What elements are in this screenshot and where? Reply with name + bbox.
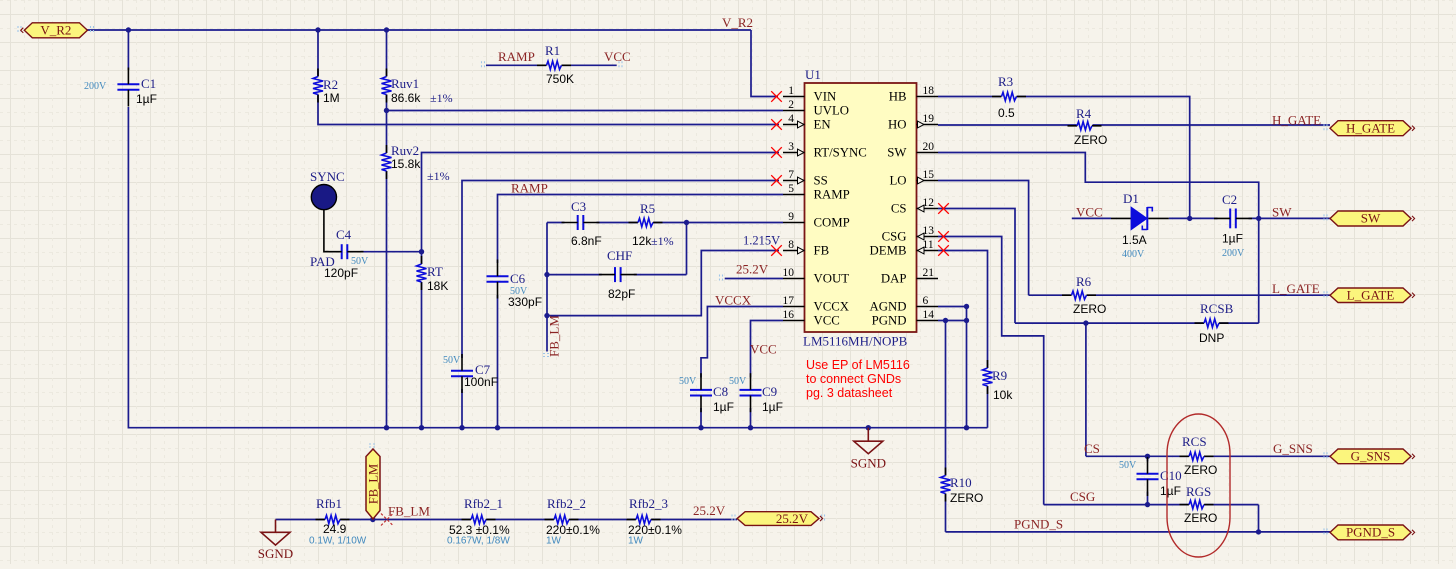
svg-text:RAMP: RAMP [814,188,850,202]
svg-text:FB_LM: FB_LM [547,315,562,357]
wire SYNC pad to C4 [324,209,329,252]
svg-text:50V: 50V [679,376,697,387]
svg-text:R10: R10 [950,475,972,490]
net label CS [1084,441,1100,456]
resistor R5 [629,201,674,248]
svg-text:CSG: CSG [1070,489,1095,504]
resistor Rfb2_3 [627,496,683,547]
svg-text:100nF: 100nF [464,375,498,389]
svg-text:FB_LM: FB_LM [366,464,380,504]
svg-text:AGND: AGND [870,300,907,314]
net label 25.2V (VOUT) [736,262,769,277]
wire net RT/SYNC to pin 3 [422,153,780,265]
svg-text:RT/SYNC: RT/SYNC [814,146,867,160]
junction dot COMP/R5 [684,220,689,225]
svg-text:G_SNS: G_SNS [1351,449,1391,464]
wire C6 bottom to bus [497,295,499,428]
junction dots top bus [126,27,390,32]
pin 9 COMP [783,211,850,230]
svg-text:0.5: 0.5 [998,106,1015,120]
ground SGND (bus) [851,428,886,471]
no-ERC marker pin 12 [938,203,949,214]
pin 5 RAMP [783,183,850,202]
pin 7 SS [783,169,828,188]
svg-text:R6: R6 [1076,274,1092,289]
svg-text:19: 19 [923,113,935,125]
svg-text:to connect GNDs: to connect GNDs [806,372,901,386]
resistor R6 [1062,274,1106,316]
net label VCC (R1) [604,49,631,64]
diode D1 [1111,191,1169,260]
wire Ruv1-Ruv2 link [386,95,388,154]
pin 2 UVLO [783,99,849,118]
wire net LO pin 15 down [938,181,1029,296]
test pad SYNC [310,169,345,210]
svg-text:25.2V: 25.2V [776,511,809,526]
net label SW [1272,205,1292,220]
svg-text:PGND_S: PGND_S [1346,525,1395,540]
wire net HB pin 18 to SW node [938,97,1190,219]
svg-text:3: 3 [788,141,794,153]
svg-text:120pF: 120pF [324,266,358,280]
capacitor C8 [679,373,734,414]
resistor Ruv1 [382,69,453,106]
wire net SW pin 20 jog [938,153,1259,219]
port H_GATE [1330,120,1415,135]
junction dot CS/RCSB [1083,320,1088,325]
svg-text:UVLO: UVLO [814,104,850,118]
svg-text:17: 17 [783,295,795,307]
svg-text:4: 4 [788,113,794,125]
svg-text:ZERO: ZERO [1184,463,1217,477]
no-ERC marker pin 1 [771,91,782,102]
junction dots SW node [1187,216,1261,221]
svg-text:25.2V: 25.2V [736,262,769,277]
svg-text:VOUT: VOUT [814,272,850,286]
resistor R2 [313,69,340,106]
wire R2 top lead [317,30,319,76]
ground SGND (divider) [258,520,293,562]
pin 16 VCC [783,309,840,328]
svg-text:15.8k: 15.8k [391,157,421,171]
net label FB_LM vertical [547,315,562,357]
resistor Rfb2_1 [447,496,510,547]
svg-text:1: 1 [788,85,794,97]
svg-text:18: 18 [923,85,935,97]
resistor Ruv2 [382,143,450,183]
wire net RAMP R1 segment [486,64,617,66]
wire net HO pin 19 through R4 to H_GATE [938,124,1330,126]
svg-text:0.1W, 1/10W: 0.1W, 1/10W [309,536,367,547]
svg-text:SW: SW [1272,205,1292,220]
svg-text:0.167W, 1/8W: 0.167W, 1/8W [447,536,510,547]
svg-text:HO: HO [888,118,906,132]
compile error cross FB_LM [381,514,393,526]
resistor RT [417,256,449,293]
svg-text:1µF: 1µF [762,400,783,414]
wire ground bus SGND [128,107,987,428]
capacitor C9 [729,373,783,414]
no-ERC marker pin 13 [938,231,949,242]
wire C1 top lead [127,30,129,70]
wire net CSG pin 13 down [938,237,1044,505]
wire CHF branch right vertical [686,223,688,275]
svg-text:6.8nF: 6.8nF [571,234,602,248]
resistor RCS [1180,434,1218,477]
svg-text:750K: 750K [546,72,574,86]
svg-text:V_R2: V_R2 [40,23,71,38]
port V_R2 [21,23,88,38]
svg-text:9: 9 [788,211,794,223]
svg-text:SS: SS [814,174,828,188]
svg-text:VCCX: VCCX [814,300,850,314]
svg-text:C8: C8 [713,384,728,399]
svg-text:H_GATE: H_GATE [1272,113,1321,128]
pin 12 CS [891,197,938,216]
svg-text:COMP: COMP [814,216,850,230]
svg-text:U1: U1 [805,67,821,82]
svg-text:DNP: DNP [1199,331,1224,345]
net label 1.215V [743,234,780,248]
junction dot FB_LM divider [370,517,375,522]
svg-text:pg. 3 datasheet: pg. 3 datasheet [806,386,893,400]
no-ERC marker pin 11 [938,245,949,256]
op-amp U1 body LM5116MH/NOPB [803,67,917,349]
wire RCSB to SW node vertical [1258,218,1260,323]
pin 14 PGND [872,309,938,328]
svg-text:H_GATE: H_GATE [1346,120,1395,135]
svg-text:10: 10 [783,267,795,279]
svg-text:HB: HB [889,90,907,104]
capacitor C3 [562,199,602,248]
wire net SS pin 7 to C7 [462,181,779,359]
junction dots C10 [1145,454,1150,508]
no-ERC marker pin 3 [771,147,782,158]
pin 8 FB [783,239,829,258]
svg-text:6: 6 [923,295,929,307]
svg-text:1W: 1W [628,536,644,547]
no-ERC marker pin 7 [771,175,782,186]
svg-text:1.215V: 1.215V [743,234,780,248]
net label L_GATE [1272,281,1320,296]
pin 21 DAP [881,267,938,286]
net label VCC (C9) [750,342,777,357]
wire net FB_LM vertical stub [546,223,548,352]
resistor Rfb2_2 [545,496,601,547]
svg-text:EN: EN [814,118,831,132]
svg-text:1µF: 1µF [713,400,734,414]
highlight ellipse RCS/RGS [1167,414,1230,557]
svg-text:C2: C2 [1222,192,1237,207]
resistor Rfb1 [309,496,367,547]
svg-text:5: 5 [788,183,794,195]
svg-text:VCC: VCC [604,49,631,64]
pin 10 VOUT [783,267,850,286]
capacitor C2 [1214,192,1252,259]
wire Ruv1 top lead [386,30,388,76]
svg-text:R1: R1 [545,43,560,58]
svg-text:86.6k: 86.6k [391,91,421,105]
svg-text:Ruv1: Ruv1 [391,76,419,91]
net label FB_LM (divider) [388,504,430,519]
junction dot RT/C4 [419,249,424,254]
wire net FB to pin 8 [547,251,779,316]
svg-text:400V: 400V [1122,249,1145,260]
svg-text:10k: 10k [993,388,1013,402]
junction dot PGND_S/RGS [1256,529,1261,534]
port L_GATE [1330,287,1415,302]
wire net FB_LM bottom divider row [276,519,738,521]
svg-text:C10: C10 [1160,468,1182,483]
port G_SNS [1330,449,1415,464]
svg-text:330pF: 330pF [508,295,542,309]
wire net EN from R2 to pin 4 [318,95,779,125]
svg-text:RT: RT [427,264,443,279]
net label 25.2V (port) [693,503,726,518]
wire net L_GATE row through R6 [1029,294,1330,296]
svg-text:CHF: CHF [607,248,632,263]
net label V_R2 top [722,15,753,30]
svg-text:DAP: DAP [881,272,907,286]
wire C9 bottom to bus [750,408,752,428]
svg-text:ZERO: ZERO [1073,302,1106,316]
svg-text:25.2V: 25.2V [693,503,726,518]
svg-text:11: 11 [923,239,934,251]
net label VCCX [715,293,752,308]
svg-text:±1%: ±1% [430,91,453,105]
svg-text:RAMP: RAMP [498,49,535,64]
wire net V_R2 top bus [87,30,778,97]
wire R10 bottom [945,494,947,532]
resistor R4 [1068,106,1108,147]
resistor R3 [992,74,1026,120]
capacitor C6 [487,260,543,310]
svg-text:1.5A: 1.5A [1122,233,1147,247]
resistor R10 [941,468,984,506]
resistor RGS [1180,484,1218,525]
wire C8 bottom to bus [700,408,702,428]
wire net CS down to sense row [1085,323,1087,456]
wire C4 right lead to RT node [361,251,422,253]
wire net PGND_S R10 vertical [945,321,947,476]
svg-text:16: 16 [783,309,795,321]
capacitor C7 [443,354,498,393]
svg-text:C1: C1 [141,76,156,91]
capacitor C1 [84,68,157,107]
svg-text:2: 2 [788,99,794,111]
wire net PGND pin 14 [938,320,967,322]
wire net PGND_S row to port [946,531,1331,533]
wire Ruv2 to ground bus [386,171,388,428]
svg-text:VCC: VCC [750,342,777,357]
svg-text:ZERO: ZERO [1184,511,1217,525]
svg-text:R3: R3 [998,74,1013,89]
junction dots AGND/PGND [943,304,969,323]
svg-text:CS: CS [891,202,907,216]
wire C7 bottom to bus [461,389,463,428]
svg-text:FB: FB [814,244,830,258]
svg-text:200V: 200V [1222,248,1245,259]
svg-text:Rfb2_3: Rfb2_3 [629,496,668,511]
svg-text:±1%: ±1% [651,234,674,248]
port SW [1330,211,1415,226]
svg-text:50V: 50V [1119,460,1137,471]
pin 6 AGND [870,295,938,314]
svg-text:50V: 50V [729,376,747,387]
svg-text:R2: R2 [323,77,338,92]
wire net DEMB pin 11 to R9 [938,251,988,369]
wire net VCCX pin 17 to C8 [701,307,783,378]
no-ERC marker pin 4 [771,119,782,130]
svg-text:50V: 50V [443,355,461,366]
svg-text:Use EP of LM5116: Use EP of LM5116 [806,358,910,372]
svg-text:VCC: VCC [814,314,840,328]
svg-text:RGS: RGS [1186,484,1211,499]
svg-text:8: 8 [788,239,794,251]
svg-text:SGND: SGND [851,456,886,471]
svg-text:RCS: RCS [1182,434,1207,449]
junction dots ground bus [384,425,969,430]
svg-text:1µF: 1µF [136,92,157,106]
svg-text:SW: SW [1361,211,1381,226]
svg-text:14: 14 [923,309,935,321]
svg-text:RAMP: RAMP [511,181,548,196]
svg-text:D1: D1 [1123,191,1139,206]
svg-text:1W: 1W [546,536,562,547]
svg-text:VIN: VIN [814,90,837,104]
net label G_SNS [1273,441,1313,456]
wire net CS pin 12 down [938,209,1015,324]
svg-text:CSG: CSG [882,230,907,244]
svg-text:Rfb1: Rfb1 [316,496,342,511]
wire net CS RCSB row [1015,322,1259,324]
svg-text:VCCX: VCCX [715,293,752,308]
pin 18 HB [889,85,938,104]
wire net VCC pin 16 to C9 [751,321,784,378]
svg-text:Ruv2: Ruv2 [391,143,419,158]
wire net CSG row through RGS [1044,504,1259,506]
svg-text:VCC: VCC [1076,205,1103,220]
svg-text:RCSB: RCSB [1200,301,1234,316]
pin 19 HO [888,113,938,132]
svg-text:18K: 18K [427,279,448,293]
svg-text:21: 21 [923,267,935,279]
capacitor C4 [310,227,369,280]
wire net COMP pin 9 [687,222,784,224]
net label PGND_S [1014,517,1063,532]
net label VCC (D1) [1076,205,1103,220]
wire net UVLO to pin 2 [387,110,784,112]
svg-text:R4: R4 [1076,106,1092,121]
svg-text:LO: LO [889,174,906,188]
wire RGS right to PGND_S row [1258,505,1260,532]
svg-text:Rfb2_1: Rfb2_1 [464,496,503,511]
pin 20 SW [887,141,938,160]
svg-text:1µF: 1µF [1160,484,1181,498]
junction dot Ruv1/UVLO [384,108,389,113]
capacitor CHF [599,248,637,301]
svg-text:±1%: ±1% [427,169,450,183]
wire R9 bottom to bus [987,386,989,428]
wire CHF row [547,274,687,276]
pin 13 CSG [882,225,938,244]
svg-text:82pF: 82pF [608,287,635,301]
svg-text:15: 15 [923,169,935,181]
svg-text:12k: 12k [632,234,652,248]
svg-text:7: 7 [788,169,794,181]
port PGND_S [1330,525,1415,540]
net label RAMP (R1) [498,49,535,64]
wire net CS sense row through RCS to G_SNS [1086,455,1330,457]
svg-text:ZERO: ZERO [950,491,983,505]
svg-text:L_GATE: L_GATE [1347,287,1395,302]
svg-text:PGND_S: PGND_S [1014,517,1063,532]
svg-text:V_R2: V_R2 [722,15,753,30]
wire net RAMP pin 5 to C6 [498,195,784,264]
net label RAMP (pin5) [511,181,548,196]
svg-text:Rfb2_2: Rfb2_2 [547,496,586,511]
svg-text:G_SNS: G_SNS [1273,441,1313,456]
wire net 25.2V VOUT stub pin 10 [725,278,783,280]
svg-text:ZERO: ZERO [1074,133,1107,147]
resistor RCSB [1195,301,1234,345]
svg-text:C6: C6 [510,271,526,286]
port 25.2V [737,511,823,526]
svg-text:13: 13 [923,225,935,237]
wire net SW row diode to port [1072,217,1330,219]
svg-text:1µF: 1µF [1222,232,1243,246]
pin 4 EN [783,113,831,132]
svg-text:SW: SW [887,146,907,160]
net label CSG [1070,489,1095,504]
svg-text:R5: R5 [640,201,655,216]
capacitor C10 [1119,457,1182,498]
svg-text:C3: C3 [571,199,586,214]
svg-text:PGND: PGND [872,314,907,328]
resistor R1 [537,43,574,86]
wire C10 branch [1147,456,1149,504]
svg-text:200V: 200V [84,81,107,92]
net label H_GATE [1272,113,1321,128]
pin 11 DEMB [870,239,938,258]
svg-text:20: 20 [923,141,935,153]
junction dots FB node [544,272,549,318]
wire RT bottom to bus [421,282,423,428]
svg-text:FB_LM: FB_LM [388,504,430,519]
svg-text:LM5116MH/NOPB: LM5116MH/NOPB [803,334,908,349]
pin 17 VCCX [783,295,850,314]
svg-text:L_GATE: L_GATE [1272,281,1320,296]
svg-text:DEMB: DEMB [870,244,907,258]
no-ERC marker pin 8 [771,245,782,256]
svg-text:C4: C4 [336,227,352,242]
resistor R9 [983,360,1014,402]
svg-text:SYNC: SYNC [310,169,345,184]
svg-text:CS: CS [1084,441,1100,456]
wire COMP compensation segment [547,222,687,224]
svg-text:R9: R9 [992,368,1007,383]
note text red [806,358,910,400]
svg-text:12: 12 [923,197,935,209]
pin 15 LO [889,169,938,188]
port FB_LM vertical [366,449,380,519]
wire net AGND pin 6 [938,307,967,428]
svg-text:SGND: SGND [258,546,293,561]
svg-text:24.9: 24.9 [323,522,347,536]
pin 1 VIN [783,85,836,104]
pin 3 RT/SYNC [783,141,867,160]
svg-text:C9: C9 [762,384,777,399]
